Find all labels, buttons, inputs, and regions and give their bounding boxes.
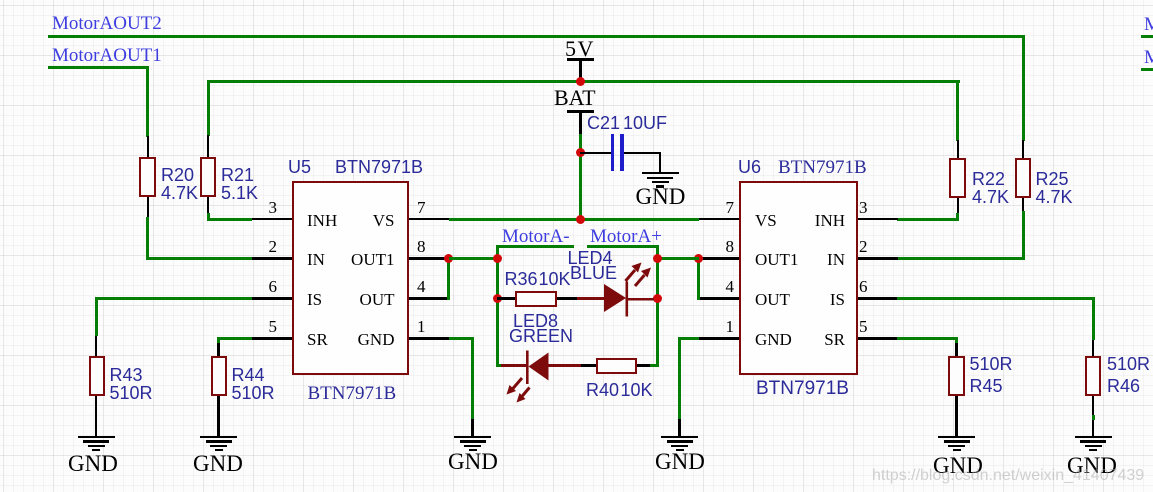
LED D8 cathode lead right xyxy=(548,364,581,367)
pin stub U6 pin6 xyxy=(858,297,898,300)
net label MotorAOUT2 xyxy=(52,14,162,33)
wire U5 pin5 left xyxy=(217,337,252,340)
pin number 6 U6 xyxy=(859,278,868,295)
label R43 510R xyxy=(110,366,153,402)
wire 5V rail down to R21 xyxy=(207,80,210,136)
wire R22 to pin3 of U6 xyxy=(956,213,959,221)
op-amp U5 body xyxy=(292,181,410,375)
wire U6 pin1 down to gnd xyxy=(678,337,681,419)
node junction MotorA- pin8 row xyxy=(493,254,502,263)
label R25 4.7K xyxy=(1036,170,1073,206)
pin stub U6 pin3 xyxy=(858,218,898,221)
resistor R22 xyxy=(949,158,966,198)
pin name IS U6 xyxy=(810,291,845,308)
wire 5V rail horizontal xyxy=(207,80,960,83)
lead R36 right stub xyxy=(557,297,577,300)
wire stub right second xyxy=(1141,68,1153,71)
pin number 8 U6 xyxy=(706,238,734,255)
lead R22 top xyxy=(957,140,960,158)
wire cap left black xyxy=(580,152,611,155)
net label MotorA- xyxy=(502,227,570,246)
power symbol BAT stem xyxy=(579,111,582,135)
wire U5 pin8 to MotorA- vertical xyxy=(449,257,497,260)
pin stub U5 pin5 xyxy=(252,337,292,340)
pin stub U6 pin1 xyxy=(699,337,739,340)
LED D4 symbol xyxy=(596,256,658,320)
ground symbol U5 xyxy=(454,436,491,438)
node junction LED4 right xyxy=(653,294,662,303)
wire U6 pin1 left xyxy=(678,337,699,340)
net label MotorA+ xyxy=(590,227,662,246)
pin number 8 xyxy=(417,238,426,255)
pin number 4 U6 xyxy=(706,278,734,295)
label U6 BTN7971B bottom xyxy=(756,379,849,398)
wire loop bottom left segment xyxy=(496,364,503,367)
wire MotorAOUT2 vertical to R25 xyxy=(1022,35,1025,141)
wire U6 pin5 down xyxy=(955,337,958,343)
pin stub U5 pin7 xyxy=(409,218,449,221)
node junction VS xyxy=(576,215,585,224)
pin number 5 U6 xyxy=(859,318,868,335)
label R22 4.7K xyxy=(972,170,1009,206)
lead R25 top xyxy=(1022,140,1025,158)
pin name GND xyxy=(350,331,395,348)
ground symbol R44 xyxy=(200,436,237,438)
pin number 6 xyxy=(249,278,277,295)
wire cap right black xyxy=(624,152,661,155)
pin stub U5 pin3 xyxy=(252,218,292,221)
pin name IS xyxy=(307,291,322,308)
lead R20 bottom xyxy=(147,197,150,218)
ground label GND U6 xyxy=(655,450,705,473)
pin name INH U6 xyxy=(810,212,845,229)
wire MotorA+ underline xyxy=(587,245,659,248)
pin number 3 xyxy=(249,199,277,216)
node junction U6 out1 xyxy=(694,254,703,263)
label R44 510R xyxy=(232,366,275,402)
lead R46 bottom2 xyxy=(1092,420,1095,436)
label U5 BTN7971B bottom xyxy=(308,384,397,403)
resistor R43 xyxy=(89,356,106,396)
label U5 comment BTN7971B top xyxy=(335,158,423,177)
label R40 10K xyxy=(586,381,619,399)
wire R21 to pin3 xyxy=(207,213,210,221)
lead R25 bottom xyxy=(1022,198,1025,211)
op-amp U6 body xyxy=(739,181,858,375)
label BLUE xyxy=(570,264,617,282)
label R20 4.7K xyxy=(161,166,198,202)
power symbol 5V bar xyxy=(567,58,594,61)
wire MotorA- underline xyxy=(496,245,575,248)
watermark xyxy=(872,467,1144,485)
ground symbol R46 xyxy=(1075,436,1112,438)
label R45 510R xyxy=(970,353,1013,397)
lead R45 top xyxy=(955,343,958,356)
wire VS row xyxy=(449,218,699,221)
lead R43 bottom xyxy=(95,396,98,436)
wire loop left vertical xyxy=(496,245,499,367)
label LED8 xyxy=(513,312,558,330)
ground symbol U6 xyxy=(661,436,698,438)
node junction cap xyxy=(576,148,585,157)
pin name GND U6 xyxy=(755,331,792,348)
pin name IN xyxy=(307,251,325,268)
lead R40 right stub xyxy=(637,364,651,367)
node junction U5 out1 xyxy=(444,254,453,263)
LED D4 anode lead xyxy=(577,297,604,300)
pin name OUT1 xyxy=(346,251,395,268)
resistor R45 xyxy=(948,356,965,396)
power label 5V xyxy=(565,38,595,60)
ground label GND R45 xyxy=(933,454,983,477)
net label MotorAOUT1 xyxy=(52,46,162,65)
wire U5 pin1 right xyxy=(449,337,474,340)
wire R20 to pin2 xyxy=(146,217,149,260)
lead R44 bottom xyxy=(217,396,220,436)
power symbol BAT bar xyxy=(567,110,594,113)
pin stub U5 pin8 xyxy=(409,257,449,260)
wire U6 pin5 right xyxy=(897,337,958,340)
power symbol 5V stem xyxy=(579,59,582,81)
pin stub U6 pin8 xyxy=(699,257,739,260)
ground symbol R45 xyxy=(938,436,975,438)
pin stub U6 pin7 xyxy=(699,218,739,221)
pin number 1 xyxy=(417,318,426,335)
capacitor C21 plate left xyxy=(611,134,614,171)
pin name SR U6 xyxy=(810,331,845,348)
pin number 7 xyxy=(417,199,426,216)
label GREEN xyxy=(509,327,573,345)
label LED4 xyxy=(568,249,613,267)
pin number 1 U6 xyxy=(706,318,734,335)
lead R46 bottom xyxy=(1092,396,1095,416)
pin stub U6 pin2 xyxy=(858,257,898,260)
wire MotorAOUT2 horizontal xyxy=(48,35,1023,38)
ground label GND cap xyxy=(636,185,686,208)
resistor R46 xyxy=(1085,356,1102,396)
pin name OUT U6 xyxy=(755,291,790,308)
ground symbol cap xyxy=(642,172,679,174)
pin stub U5 pin4 xyxy=(409,297,449,300)
ground cap stem xyxy=(659,152,662,173)
resistor R44 xyxy=(211,356,228,396)
power label BAT xyxy=(554,87,596,109)
pin name VS U6 xyxy=(755,212,777,229)
wire U5 pin5 down xyxy=(217,337,220,343)
pin name OUT xyxy=(355,291,395,308)
pin stub U5 pin1 xyxy=(409,337,449,340)
wire U6 pin8 junction down to pin4 xyxy=(697,259,700,301)
pin stub U5 pin6 xyxy=(252,297,292,300)
label U6 xyxy=(738,158,761,177)
lead R22 bottom xyxy=(957,198,960,213)
wire R25 to pin2 of U6 xyxy=(1022,211,1025,260)
resistor R25 xyxy=(1015,158,1032,198)
pin name OUT1 U6 xyxy=(755,251,798,268)
label C21 10UF xyxy=(587,114,620,132)
wire loop bottom right segment xyxy=(650,364,659,367)
wire U5 pin8 junction down to pin4 xyxy=(447,259,450,301)
wire U6 pin8 to MotorA+ vertical xyxy=(657,257,699,260)
pin number 5 xyxy=(249,318,277,335)
wire BAT vertical xyxy=(579,134,582,220)
lead LED8 to R40 black xyxy=(581,364,596,367)
pin name SR xyxy=(307,331,328,348)
capacitor C21 plate right xyxy=(620,134,624,171)
wire R46 small segment xyxy=(1092,415,1095,420)
ground label GND R46 xyxy=(1067,454,1117,477)
lead R36 left stub xyxy=(497,297,515,300)
ground symbol R43 xyxy=(78,436,115,438)
label R21 5.1K xyxy=(221,166,258,202)
label R36 10K xyxy=(505,270,538,288)
wire MotorAOUT1 vertical to R20 xyxy=(146,66,149,137)
resistor R21 xyxy=(200,157,217,197)
pin stub U5 pin2 xyxy=(252,257,292,260)
wire stub right top xyxy=(1141,35,1153,38)
pin number 2 xyxy=(249,238,277,255)
LED D8 symbol xyxy=(500,344,564,406)
net label fragment right second xyxy=(1144,48,1153,67)
ground U6 stem xyxy=(678,419,681,436)
lead R44 top xyxy=(217,343,220,356)
ground U5 stem xyxy=(471,419,474,436)
net label fragment right top xyxy=(1144,15,1153,34)
label U6 comment BTN7971B top xyxy=(778,158,867,177)
node junction MotorA+ pin8 row xyxy=(653,254,662,263)
ground label GND R43 xyxy=(68,452,118,475)
LED D8 anode lead left xyxy=(501,364,527,367)
label R46 510R xyxy=(1107,353,1150,397)
resistor R20 xyxy=(139,157,156,197)
wire U6 pin6 right xyxy=(897,297,1095,300)
lead R45 bottom xyxy=(955,396,958,436)
label U5 xyxy=(288,158,311,177)
wire U6 pin6 down to R46 xyxy=(1092,297,1095,340)
node junction 5V-rail xyxy=(576,77,585,86)
wire U5 pin6 left xyxy=(95,297,252,300)
wire 5V rail down to R22 xyxy=(956,80,959,141)
pin number 3 U6 xyxy=(859,199,868,216)
pin stub U6 pin5 xyxy=(858,337,898,340)
wire MotorAOUT1 horizontal xyxy=(48,66,149,69)
pin name INH xyxy=(307,212,337,229)
pin name IN U6 xyxy=(810,251,845,268)
resistor R40 xyxy=(596,358,637,375)
wire U5 pin1 down to gnd xyxy=(471,337,474,419)
lead R21 bottom xyxy=(207,197,210,213)
wire loop right vertical xyxy=(656,245,659,367)
node junction R36 left xyxy=(493,294,502,303)
resistor R36 xyxy=(515,291,557,307)
pin stub U6 pin4 xyxy=(699,297,739,300)
pin number 2 U6 xyxy=(859,238,868,255)
lead R43 top xyxy=(95,336,98,356)
wire U5 pin6 down xyxy=(95,297,98,336)
pin name VS xyxy=(355,212,395,229)
ground label GND R44 xyxy=(193,452,243,475)
lead R46 top xyxy=(1092,340,1095,356)
pin number 7 U6 xyxy=(706,199,734,216)
lead R21 top xyxy=(207,135,210,157)
ground label GND U5 xyxy=(448,450,498,473)
lead R20 top xyxy=(147,136,150,157)
pin number 4 xyxy=(417,278,426,295)
